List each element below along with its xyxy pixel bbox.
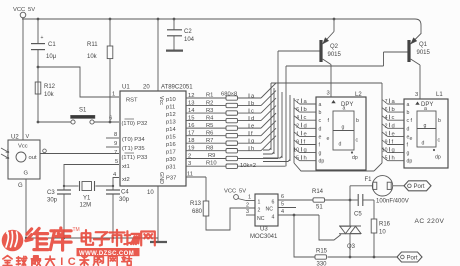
svg-text:1: 1 xyxy=(296,131,299,137)
svg-text:2: 2 xyxy=(385,123,388,129)
svg-text:4: 4 xyxy=(296,115,299,121)
svg-text:p13: p13 xyxy=(166,120,176,126)
svg-text:R5: R5 xyxy=(206,123,213,129)
svg-text:dp: dp xyxy=(435,155,441,161)
svg-text:e: e xyxy=(410,136,413,142)
svg-text:R2: R2 xyxy=(206,101,213,107)
svg-text:3: 3 xyxy=(246,209,249,215)
svg-text:b: b xyxy=(304,107,307,113)
svg-text:8: 8 xyxy=(114,132,117,138)
svg-text:f: f xyxy=(328,118,330,124)
svg-text:1: 1 xyxy=(112,92,115,98)
svg-text:6: 6 xyxy=(385,107,388,113)
svg-text:b: b xyxy=(407,110,410,116)
svg-text:Port: Port xyxy=(407,255,418,261)
svg-text:NC: NC xyxy=(266,207,274,213)
svg-text:a: a xyxy=(407,102,410,108)
svg-text:100nF/400V: 100nF/400V xyxy=(376,199,409,205)
svg-text:5V: 5V xyxy=(28,7,35,13)
svg-text:b: b xyxy=(356,118,359,124)
svg-text:9015: 9015 xyxy=(417,50,431,56)
svg-text:10: 10 xyxy=(147,190,154,196)
svg-text:p12: p12 xyxy=(166,112,176,118)
svg-text:6: 6 xyxy=(281,194,284,200)
svg-text:f: f xyxy=(251,131,253,137)
svg-text:R10: R10 xyxy=(206,161,217,167)
svg-text:c: c xyxy=(304,115,307,121)
svg-text:VCC: VCC xyxy=(224,189,236,195)
svg-text:MOC3041: MOC3041 xyxy=(250,234,278,240)
svg-text:6: 6 xyxy=(272,200,275,206)
svg-text:S1: S1 xyxy=(79,108,87,114)
svg-text:7: 7 xyxy=(385,99,388,105)
svg-text:10k: 10k xyxy=(44,92,55,98)
svg-text:20: 20 xyxy=(143,85,150,91)
svg-text:5: 5 xyxy=(296,156,299,162)
svg-text:G: G xyxy=(18,183,23,189)
svg-text:DPY: DPY xyxy=(421,102,433,108)
svg-text:104: 104 xyxy=(184,37,195,43)
svg-text:R7: R7 xyxy=(206,138,213,144)
svg-text:Q3: Q3 xyxy=(347,244,356,250)
svg-text:5V: 5V xyxy=(239,189,246,195)
svg-text:C3: C3 xyxy=(47,190,55,196)
svg-text:R8: R8 xyxy=(206,146,213,152)
svg-text:680×8: 680×8 xyxy=(221,92,237,98)
svg-text:b: b xyxy=(438,118,441,124)
svg-text:d: d xyxy=(422,141,425,147)
svg-text:f: f xyxy=(407,143,409,149)
svg-text:4: 4 xyxy=(272,215,275,221)
svg-text:R15: R15 xyxy=(316,249,328,255)
svg-text:dp: dp xyxy=(352,155,358,161)
svg-text:10μ: 10μ xyxy=(46,54,57,60)
svg-text:5: 5 xyxy=(281,202,284,208)
svg-text:10: 10 xyxy=(293,148,299,154)
svg-text:1: 1 xyxy=(248,195,251,201)
svg-text:L1: L1 xyxy=(436,92,443,98)
svg-text:d: d xyxy=(251,116,254,122)
svg-text:Y1: Y1 xyxy=(83,196,91,202)
svg-text:L2: L2 xyxy=(355,92,362,98)
svg-text:10k×2: 10k×2 xyxy=(240,163,256,169)
svg-text:4: 4 xyxy=(281,209,284,215)
svg-text:c: c xyxy=(392,115,395,121)
svg-text:U2: U2 xyxy=(11,135,19,141)
svg-text:6: 6 xyxy=(296,107,299,113)
svg-text:9: 9 xyxy=(296,140,299,146)
svg-text:I: I xyxy=(60,256,63,266)
svg-text:9: 9 xyxy=(114,141,117,147)
svg-text:h: h xyxy=(251,146,254,152)
svg-text:b: b xyxy=(251,101,254,107)
svg-text:p16: p16 xyxy=(166,142,176,148)
svg-text:R4: R4 xyxy=(206,116,214,122)
svg-text:(T0) P34: (T0) P34 xyxy=(122,137,145,143)
svg-text:U3: U3 xyxy=(260,227,268,233)
svg-text:p10: p10 xyxy=(166,97,176,103)
svg-text:xt2: xt2 xyxy=(122,177,130,183)
svg-text:c: c xyxy=(407,118,410,124)
svg-text:R3: R3 xyxy=(206,108,213,114)
svg-text:F1: F1 xyxy=(365,177,373,183)
svg-text:p15: p15 xyxy=(166,135,176,141)
svg-text:U1: U1 xyxy=(122,85,130,91)
svg-text:30p: 30p xyxy=(47,198,58,204)
svg-text:NC: NC xyxy=(257,216,265,222)
svg-text:c: c xyxy=(356,138,359,144)
svg-text:2: 2 xyxy=(246,203,249,209)
svg-text:f: f xyxy=(411,118,413,124)
svg-text:g: g xyxy=(251,139,254,145)
svg-text:p31: p31 xyxy=(166,165,176,171)
svg-text:p11: p11 xyxy=(166,105,175,111)
svg-text:Vcc: Vcc xyxy=(158,96,164,105)
svg-text:10k: 10k xyxy=(87,54,98,60)
svg-text:h: h xyxy=(392,156,395,162)
svg-text:R16: R16 xyxy=(379,222,391,228)
svg-text:TM: TM xyxy=(73,227,80,233)
svg-text:d: d xyxy=(392,123,395,129)
svg-text:a: a xyxy=(424,106,427,112)
svg-text:7: 7 xyxy=(296,99,299,105)
svg-text:e: e xyxy=(251,124,254,130)
svg-text:10: 10 xyxy=(379,230,386,236)
svg-text:xt1: xt1 xyxy=(122,164,130,170)
svg-text:g: g xyxy=(342,125,345,131)
svg-text:e: e xyxy=(319,134,322,140)
svg-text:C2: C2 xyxy=(184,29,192,35)
svg-text:30p: 30p xyxy=(119,197,130,203)
svg-text:3: 3 xyxy=(327,91,330,97)
svg-text:p17: p17 xyxy=(166,150,176,156)
svg-text:7: 7 xyxy=(114,150,117,156)
svg-text:out: out xyxy=(29,155,37,161)
svg-text:d: d xyxy=(407,126,410,132)
svg-text:4: 4 xyxy=(385,115,388,121)
svg-text:R13: R13 xyxy=(190,201,202,207)
svg-text:g: g xyxy=(407,151,410,157)
svg-text:C: C xyxy=(68,256,76,266)
svg-text:330: 330 xyxy=(317,262,328,266)
svg-text:R12: R12 xyxy=(44,84,56,90)
svg-text:GND: GND xyxy=(158,172,164,184)
svg-text:f: f xyxy=(319,143,321,149)
svg-text:h: h xyxy=(304,156,307,162)
svg-text:e: e xyxy=(327,136,330,142)
svg-text:9015: 9015 xyxy=(328,52,342,58)
svg-text:5: 5 xyxy=(385,156,388,162)
svg-text:C5: C5 xyxy=(354,212,362,218)
svg-text:2: 2 xyxy=(258,208,261,214)
svg-text:Vcc: Vcc xyxy=(18,144,28,150)
svg-text:R14: R14 xyxy=(312,189,324,195)
svg-text:1: 1 xyxy=(258,200,261,206)
svg-text:dp: dp xyxy=(319,159,325,165)
svg-text:dp: dp xyxy=(407,159,413,165)
svg-text:680: 680 xyxy=(192,209,203,215)
svg-text:51: 51 xyxy=(316,205,323,211)
svg-text:10: 10 xyxy=(382,148,388,154)
svg-text:(1T0): (1T0) xyxy=(122,121,136,127)
svg-text:p30: p30 xyxy=(166,157,176,163)
svg-text:p14: p14 xyxy=(166,127,176,133)
svg-text:(1T1): (1T1) xyxy=(122,155,136,161)
svg-text:c: c xyxy=(438,138,441,144)
svg-text:d: d xyxy=(339,142,342,148)
svg-text:2: 2 xyxy=(296,123,299,129)
svg-text:12M: 12M xyxy=(80,203,92,209)
svg-text:R11: R11 xyxy=(87,42,98,48)
svg-text:a: a xyxy=(319,102,322,108)
svg-text:Port: Port xyxy=(414,184,425,190)
svg-text:Q2: Q2 xyxy=(330,44,339,50)
svg-text:6: 6 xyxy=(109,116,112,122)
svg-text:C4: C4 xyxy=(121,190,129,196)
svg-text:P33: P33 xyxy=(137,155,147,161)
svg-text:g: g xyxy=(424,123,427,129)
svg-text:g: g xyxy=(304,148,307,154)
svg-text:9: 9 xyxy=(385,140,388,146)
svg-text:e: e xyxy=(304,131,307,137)
svg-text:R6: R6 xyxy=(206,131,213,137)
svg-text:a: a xyxy=(343,106,346,112)
svg-text:RST: RST xyxy=(126,98,138,104)
svg-text:1: 1 xyxy=(385,131,388,137)
svg-text:+: + xyxy=(41,35,44,41)
svg-text:C1: C1 xyxy=(48,42,56,48)
svg-text:R9: R9 xyxy=(208,153,215,159)
svg-text:P37: P37 xyxy=(166,176,176,182)
svg-text:b: b xyxy=(392,107,395,113)
svg-text:Q1: Q1 xyxy=(419,42,428,48)
svg-text:b: b xyxy=(319,110,322,116)
svg-text:G: G xyxy=(24,171,29,177)
svg-text:a: a xyxy=(251,94,255,100)
svg-text:V: V xyxy=(26,134,30,140)
svg-text:e: e xyxy=(392,131,395,137)
svg-text:AT89C2051: AT89C2051 xyxy=(161,85,193,91)
svg-text:d: d xyxy=(319,126,322,132)
svg-text:d: d xyxy=(304,123,307,129)
svg-text:c: c xyxy=(319,118,322,124)
svg-text:P32: P32 xyxy=(137,121,147,127)
svg-text:AC 220V: AC 220V xyxy=(415,218,445,225)
svg-text:(T1) P35: (T1) P35 xyxy=(122,146,145,152)
svg-text:g: g xyxy=(319,151,322,157)
svg-text:3: 3 xyxy=(415,92,418,98)
svg-text:g: g xyxy=(392,148,395,154)
svg-text:c: c xyxy=(251,109,254,115)
